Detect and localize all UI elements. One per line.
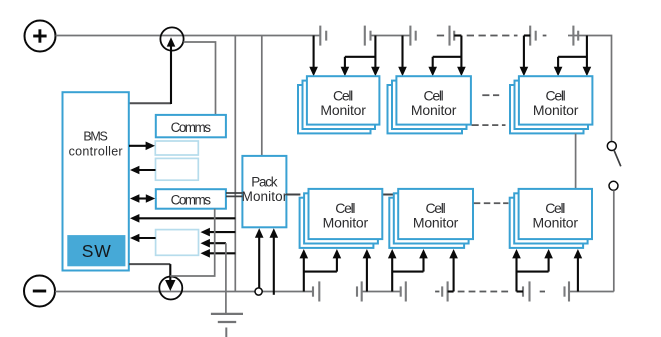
battery cell B3 [410, 26, 415, 46]
tap arrow cell1 centre [344, 57, 346, 68]
tap arrow cell6 left [515, 258, 517, 292]
switch blade [614, 150, 621, 166]
tap arrow cell3 centre [557, 57, 559, 68]
Comms block 2 [156, 189, 226, 209]
jog wire cell2 centre [433, 56, 462, 58]
svg-text:Comms: Comms [171, 120, 212, 135]
cell monitor U5 stack [389, 189, 473, 248]
battery cell B1 [320, 26, 326, 46]
U4 to U5 link [382, 194, 394, 196]
svg-text:Cell: Cell [546, 87, 566, 103]
arrow into box3 c [209, 252, 236, 254]
battery cell B8 [357, 281, 362, 301]
svg-text:Monitor: Monitor [323, 215, 369, 231]
cell monitor U1 stack [298, 76, 379, 133]
battery cell B12 [565, 281, 570, 301]
wire bottom rail segment 2 [362, 291, 401, 293]
tap arrow cell4 centre [336, 258, 338, 272]
tap arrow cell3 left [523, 36, 525, 68]
battery cell B4 [450, 26, 455, 46]
battery cell B7 [313, 281, 319, 301]
wire switch to bottom rail [613, 190, 615, 291]
jog wire cell4 centre [304, 271, 337, 273]
cell monitor U6 stack [510, 189, 592, 248]
tap arrow cell4 right [366, 258, 368, 292]
ground symbol [211, 314, 243, 337]
arrow SW to bottom sense [129, 264, 176, 291]
svg-text:Cell: Cell [545, 200, 565, 216]
svg-text:Monitor: Monitor [533, 215, 579, 231]
peripheral box 3 [156, 230, 199, 256]
daisy dashes U5-U6 [474, 202, 509, 204]
svg-text:Monitor: Monitor [242, 189, 288, 204]
battery cell B9 [401, 281, 406, 301]
pack monitor U8 [242, 156, 288, 227]
Comms2 to pack monitor twin link [226, 193, 242, 196]
BMS controller U7 [63, 92, 129, 270]
pack sense arrow 1 [258, 237, 260, 292]
stub B4 to tap [454, 34, 461, 36]
current sense circle on bottom rail [159, 277, 182, 300]
tap arrow cell5 right [453, 258, 455, 292]
Comms block 1 [156, 115, 226, 137]
peripheral box 2 [156, 158, 199, 180]
pack sense arrow 2 [273, 237, 275, 295]
jog wire cell5 centre [392, 271, 423, 273]
jog wire cell6 centre [517, 271, 549, 273]
svg-text:Monitor: Monitor [320, 102, 366, 118]
SW block [67, 235, 125, 266]
wire bottom sense to Comms2 [170, 209, 214, 276]
svg-text:Cell: Cell [424, 87, 444, 103]
wire top rail dash c [543, 35, 547, 37]
switch contact lower [609, 181, 618, 190]
jog wire cell1 centre [345, 56, 376, 58]
wire vertical rail to BMS arrows [234, 36, 236, 292]
svg-text:Pack: Pack [251, 175, 278, 190]
svg-text:Monitor: Monitor [533, 102, 579, 118]
arrow into box3 a [209, 231, 236, 233]
wire sense circle to Comms [184, 42, 216, 115]
tap arrow cell6 right [577, 258, 579, 292]
wire ground branch [225, 243, 227, 313]
battery cell B6 [573, 26, 578, 46]
daisy dashes U2-U3 upper [482, 94, 499, 96]
battery cell B11 [523, 281, 530, 301]
wire top rail segment 2 [371, 35, 410, 37]
cell monitor U3 stack [510, 76, 592, 133]
peripheral box 1 [155, 141, 198, 155]
tap arrow cell2 left [401, 36, 403, 68]
plus terminal [25, 21, 56, 52]
svg-text:Cell: Cell [426, 200, 446, 216]
wire top rail segment 3 with corner to switch [568, 36, 612, 142]
battery cell B2 [365, 26, 371, 46]
battery cell B10 [442, 281, 447, 301]
wire top rail dash a [437, 35, 444, 37]
current sense circle on top rail [160, 27, 183, 50]
svg-text:Cell: Cell [335, 200, 355, 216]
tap arrow cell5 left [391, 258, 393, 292]
wire bottom rail dash c [540, 291, 545, 293]
daisy dashes U2-U3 lower [472, 124, 506, 126]
svg-text:Cell: Cell [333, 87, 353, 103]
svg-text:controller: controller [69, 145, 123, 159]
tap arrow cell5 centre [422, 258, 424, 272]
svg-text:Monitor: Monitor [413, 215, 459, 231]
arrow BMS-Comms2 bidirectional [130, 194, 155, 203]
stub tap to B5 [524, 34, 530, 36]
wire top rail dashes b [467, 35, 518, 37]
tap arrow cell6 centre [548, 258, 550, 272]
arrow box3 to BMS [138, 237, 156, 239]
switch contact upper [607, 142, 616, 151]
wire top rail segment 1 [56, 35, 321, 37]
tap arrow cell2 right [460, 36, 462, 68]
tap arrow cell1 right [374, 36, 376, 68]
svg-text:BMS: BMS [83, 130, 108, 144]
wire vertical rail to pack monitor [261, 36, 263, 156]
arrow daisy return to BMS [138, 217, 235, 219]
tap arrow cell3 right [586, 36, 588, 68]
jog wire cell3 centre [558, 56, 587, 58]
stub tap to B11 [517, 290, 524, 292]
tap arrow cell2 centre [432, 57, 434, 68]
minus terminal [24, 276, 55, 307]
arrow BMS to box1 [129, 142, 155, 151]
arrow box2 to BMS [138, 169, 156, 171]
cell monitor U2 stack [388, 76, 471, 133]
node on bottom rail [255, 288, 262, 295]
svg-text:SW: SW [82, 241, 111, 261]
tap arrow cell1 left [313, 36, 315, 68]
battery cell B5 [530, 26, 536, 46]
arrow BMS to current sense [129, 37, 175, 104]
daisy wire U3 to U6 [575, 134, 577, 189]
arrow into box3 b [209, 242, 226, 244]
wire bottom rail dash a [435, 291, 439, 293]
pack to U4 link [286, 194, 300, 196]
stub B10 to tap [448, 290, 454, 292]
svg-text:Comms: Comms [171, 192, 212, 207]
wire bottom rail segment 3 [569, 291, 614, 293]
cell monitor U4 stack [300, 189, 383, 248]
svg-text:Monitor: Monitor [411, 102, 457, 118]
wire bottom rail segment 1 [55, 291, 313, 293]
tap arrow cell4 left [303, 258, 305, 292]
wire bottom rail dashes b [458, 291, 508, 293]
